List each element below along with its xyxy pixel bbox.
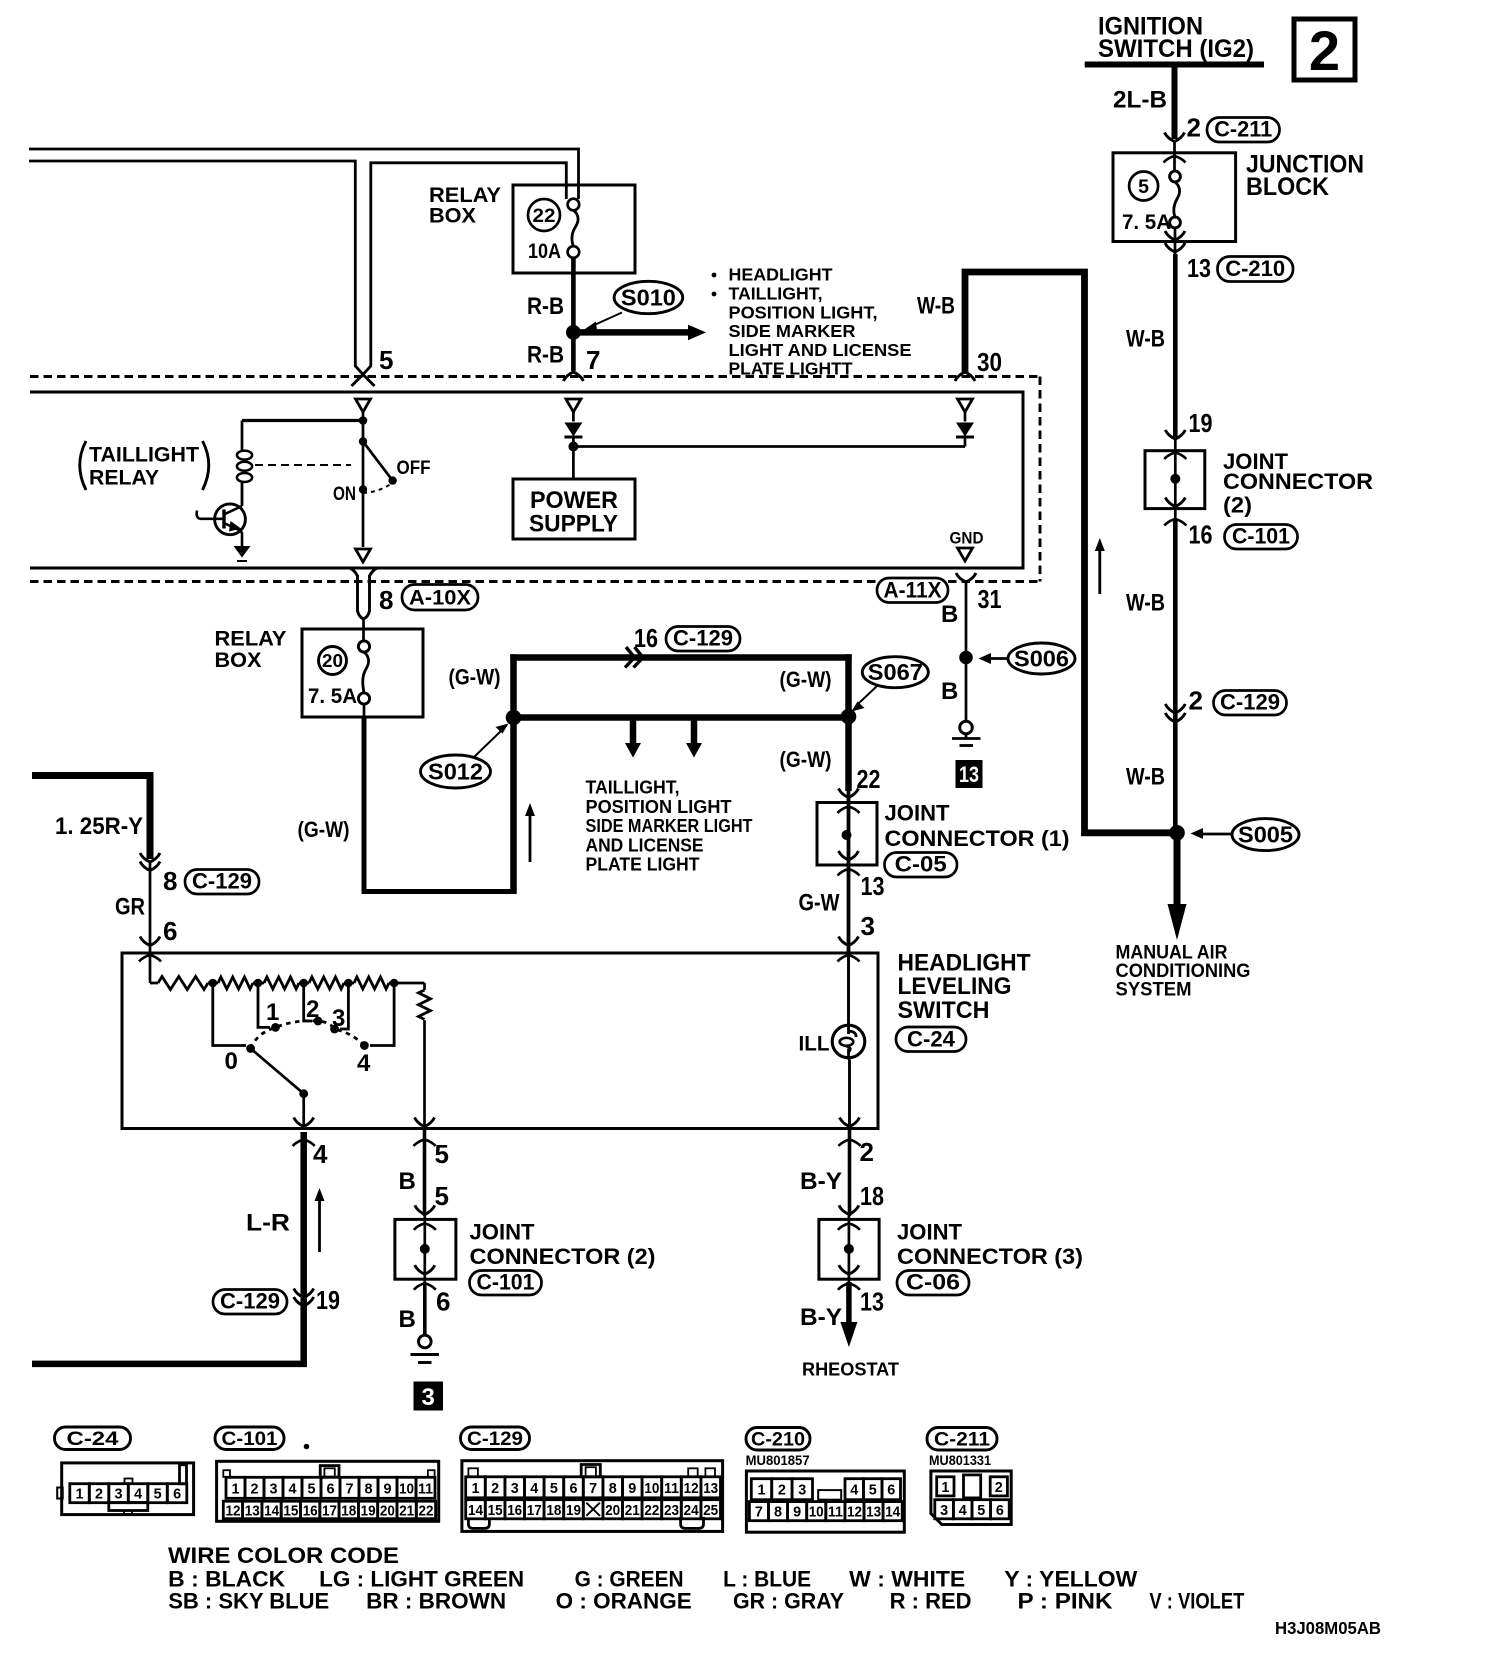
svg-text:21: 21 [625,1502,640,1519]
svg-text:C-24: C-24 [907,1027,956,1052]
svg-text:6: 6 [570,1480,578,1497]
svg-text:6: 6 [996,1502,1004,1519]
svg-text:3: 3 [861,911,875,941]
svg-text:5: 5 [550,1480,558,1497]
splice S005 dot [1169,825,1185,841]
up arrow L-R [318,1198,321,1252]
splice label S006 [1008,643,1075,674]
svg-text:R : RED: R : RED [890,1589,972,1614]
control unit solid box [30,392,1023,568]
svg-text:23: 23 [664,1502,679,1519]
svg-text:(G-W): (G-W) [298,817,350,842]
svg-text:1: 1 [232,1480,240,1497]
svg-text:22: 22 [533,205,556,227]
svg-text:10: 10 [809,1504,824,1521]
svg-text:SWITCH (IG2): SWITCH (IG2) [1098,35,1254,63]
wire W-B joint connector 2 down to S005 [1173,520,1178,830]
svg-text:7: 7 [589,1480,597,1497]
svg-text:11: 11 [828,1504,843,1521]
svg-text:4: 4 [357,1050,371,1077]
svg-text:H3J08M05AB: H3J08M05AB [1275,1618,1381,1638]
svg-text:C-101: C-101 [477,1270,535,1295]
svg-text:C-101: C-101 [1232,524,1290,549]
svg-text:10: 10 [644,1480,659,1497]
svg-text:BR : BROWN: BR : BROWN [366,1589,506,1614]
svg-text:B: B [941,601,958,628]
wire B to joint connector 2 [423,1130,427,1216]
thick branch arrow right from S010 [578,329,688,336]
svg-text:6: 6 [327,1480,335,1497]
arrow to manual air conditioning [1174,836,1181,906]
wire W-B terminal 30 thick feed [965,272,1173,833]
taillight feed arrow 1 [630,718,637,745]
svg-text:1: 1 [76,1486,84,1503]
svg-text:TAILLIGHT,: TAILLIGHT, [586,778,680,798]
splice label S010 [614,281,683,313]
svg-text:5: 5 [154,1486,162,1503]
wire G-W fuse 20 down [363,704,366,716]
svg-text:C-211: C-211 [934,1429,990,1451]
svg-text:(G-W): (G-W) [449,665,501,690]
svg-text:POSITION LIGHT: POSITION LIGHT [586,797,732,817]
svg-text:5: 5 [1138,176,1149,198]
contact stub 3 [340,983,348,1029]
svg-text:C-06: C-06 [906,1270,960,1295]
svg-text:C-211: C-211 [1214,117,1272,142]
svg-text:8: 8 [609,1480,617,1497]
connector pinout C-210 label [746,1428,810,1451]
dashed throw arc [363,484,392,494]
svg-text:R-B: R-B [527,342,564,369]
svg-text:W-B: W-B [917,293,955,320]
svg-text:8: 8 [774,1504,782,1521]
svg-text:RELAY: RELAY [89,467,159,490]
connector C-129 crossing left [140,853,160,862]
joint connector 2 right box [1145,451,1205,509]
svg-text:13: 13 [860,1287,884,1317]
svg-text:11: 11 [418,1480,433,1497]
wire D1 to power supply [572,437,575,479]
svg-text:2L-B: 2L-B [1113,87,1167,114]
wire W-B junction block to joint connector 2 [1173,254,1178,437]
svg-text:B: B [941,678,958,705]
page reference box 2 [1294,19,1355,80]
svg-text:12: 12 [847,1504,862,1521]
ground number 13 black box [956,760,983,788]
joint connector 3 crossing top [838,1205,860,1230]
svg-text:22: 22 [644,1502,659,1519]
contact stub 4 [370,983,394,1046]
connector pinout C-24 label [55,1427,131,1450]
wire B-Y to joint connector 3 [848,1130,852,1216]
splice S067 dot [841,709,857,725]
taillight relay coil [241,421,244,451]
svg-text:C-24: C-24 [67,1428,119,1450]
up arrow beside riser [529,812,532,862]
wire 16 C-129 run [510,654,851,661]
svg-text:17: 17 [527,1502,542,1519]
svg-text:1: 1 [472,1480,480,1497]
resistor R6 vertical [423,983,426,990]
svg-text:3: 3 [270,1480,278,1497]
svg-text:5: 5 [379,345,393,375]
svg-text:B-Y: B-Y [800,1304,842,1331]
svg-text:17: 17 [322,1503,337,1520]
svg-text:G-W: G-W [799,890,840,917]
svg-text:GR: GR [115,894,145,921]
wire G-W bottom run [362,889,514,894]
connector A-10X inline pair [350,568,358,576]
wire terminal 5 up to fuse 22 [363,163,566,375]
connector pinout C-101 body [217,1461,439,1521]
dashed coil actuation line [255,464,351,466]
exit crossing B wire [415,1118,435,1127]
fuse 5 circle number [1129,172,1158,201]
svg-text:(G-W): (G-W) [780,747,832,772]
svg-text:5: 5 [869,1482,877,1499]
headlight bullet list [712,273,717,278]
splice S006 dot [959,651,973,665]
svg-text:14: 14 [885,1504,901,1521]
headlight leveling switch box [122,953,878,1129]
fuse 22 circle number [528,199,560,231]
svg-text:2: 2 [251,1480,259,1497]
connector label C-129 [1214,691,1287,716]
terminal 5 female [356,399,371,412]
terminal 31 chevron [956,573,976,582]
transistor Q1 [215,504,246,535]
svg-text:2: 2 [995,1479,1003,1496]
terminal 7 female [566,399,581,412]
svg-text:R-B: R-B [527,293,564,320]
taillight relay label [80,441,86,490]
svg-text:(G-W): (G-W) [780,667,832,692]
svg-text:RHEOSTAT: RHEOSTAT [802,1359,900,1380]
svg-text:8: 8 [379,585,393,615]
svg-text:16: 16 [634,623,658,653]
up arrow beside W-B [1098,548,1101,594]
svg-text:2: 2 [778,1482,786,1499]
svg-text:JOINT: JOINT [897,1220,963,1245]
taillight feed arrow 2 [691,718,698,745]
diode bus junction dot [568,442,578,452]
switch arm to OFF [363,442,393,481]
svg-text:2: 2 [306,996,319,1023]
joint connector 1 crossing bottom [838,851,860,876]
svg-text:SIDE MARKER LIGHT: SIDE MARKER LIGHT [586,816,753,836]
svg-text:5: 5 [435,1181,449,1211]
svg-text:4: 4 [959,1502,968,1519]
svg-text:7. 5A: 7. 5A [1122,211,1171,234]
svg-text:B: B [399,1168,416,1195]
svg-text:22: 22 [419,1503,434,1520]
svg-text:4: 4 [289,1480,298,1497]
svg-text:18: 18 [341,1503,356,1520]
resistor R3 [264,977,299,989]
svg-text:SWITCH: SWITCH [898,997,990,1024]
wire feed H2 top-left to terminal 5 [29,161,363,375]
svg-text:15: 15 [283,1503,298,1520]
svg-text:19: 19 [566,1502,581,1519]
svg-text:30: 30 [977,347,1002,377]
wire branch line from S012 to S067 [514,714,849,721]
svg-text:S005: S005 [1238,822,1293,848]
svg-text:BLOCK: BLOCK [1246,173,1329,201]
contact stub 2 [304,983,313,1021]
connector label C-129 left [185,870,259,895]
svg-text:25: 25 [703,1502,718,1519]
wiper arm [251,1049,304,1094]
svg-text:4: 4 [134,1486,143,1503]
connector pinout C-129 label [461,1427,530,1450]
arrow to rheostat [846,1282,852,1324]
splice S012 dot [506,710,522,726]
svg-text:8: 8 [365,1480,373,1497]
svg-text:(2): (2) [1223,493,1252,518]
splice junction S010 dot [566,325,581,340]
svg-text:C-210: C-210 [1225,256,1285,281]
dashed selector arc [251,1021,365,1049]
svg-text:4: 4 [850,1482,859,1499]
svg-text:S010: S010 [621,285,676,311]
svg-text:19: 19 [316,1285,340,1315]
connector pinout C-211 body [931,1471,1011,1525]
ground number 3 black box [414,1382,444,1411]
svg-text:20: 20 [605,1502,620,1519]
svg-text:13: 13 [959,762,979,787]
terminal 30 chevron [955,372,975,381]
crossing into leveling switch [839,937,859,946]
junction block exit chevrons [1174,228,1177,254]
svg-text:C-210: C-210 [751,1429,805,1451]
relay box 22 outline [513,185,635,273]
svg-text:3: 3 [940,1502,948,1519]
wire 1.25R-Y feed [32,776,150,860]
svg-text:CONNECTOR: CONNECTOR [1223,469,1373,494]
svg-text:PLATE LIGHT: PLATE LIGHT [586,855,700,875]
wire G-W S067 down to joint connector 1 [845,654,852,791]
svg-text:3: 3 [798,1482,806,1499]
joint connector 1 crossing top [838,789,860,814]
svg-text:1. 25R-Y: 1. 25R-Y [55,813,143,840]
wire L-R thick [32,1132,304,1364]
fuse 5 element [1170,171,1181,182]
svg-text:2: 2 [1187,113,1201,143]
wire B to ground [423,1282,427,1335]
svg-text:RELAY: RELAY [215,628,287,651]
svg-text:LIGHT AND LICENSE: LIGHT AND LICENSE [729,340,912,360]
svg-text:2: 2 [1189,686,1203,716]
svg-text:CONNECTOR (2): CONNECTOR (2) [470,1244,656,1269]
junction node at relay branch [359,416,368,425]
relay box 20 outline [302,629,423,717]
svg-text:ON: ON [333,483,356,505]
connector pinout C-129 body [462,1461,723,1532]
svg-text:24: 24 [684,1502,700,1519]
resistor R4 [309,977,344,989]
svg-text:7: 7 [346,1480,354,1497]
crossing into switch box [140,937,160,946]
svg-text:POSITION LIGHT,: POSITION LIGHT, [729,303,878,323]
wire G-W riser to S012 [510,654,517,894]
exit crossing B-Y wire [840,1118,860,1127]
connector pinout C-210 body [746,1471,904,1532]
svg-text:C-129: C-129 [220,1289,280,1314]
svg-text:S067: S067 [868,659,923,685]
svg-text:15: 15 [488,1502,503,1519]
switch pivot node [359,437,367,445]
connector C-211 crossing [1165,133,1185,142]
terminal 8 female [356,549,371,562]
joint connector 2 right crossing top [1165,430,1185,439]
svg-text:C-101: C-101 [222,1428,278,1450]
svg-text:W-B: W-B [1126,590,1165,617]
svg-text:12: 12 [684,1480,699,1497]
joint connector 2 crossing top [414,1205,436,1230]
svg-text:TAILLIGHT: TAILLIGHT [89,444,199,467]
fuse 22 element [568,199,580,211]
ground G13 [960,721,973,734]
resistor R1 [158,977,208,990]
splice label S067 [862,657,928,688]
svg-text:CONNECTOR (1): CONNECTOR (1) [885,826,1070,851]
svg-text:O : ORANGE: O : ORANGE [556,1589,692,1614]
svg-text:1: 1 [941,1479,949,1496]
svg-text:B: B [399,1306,416,1333]
connector label C-211 [1207,118,1280,143]
svg-text:3: 3 [332,1005,345,1032]
svg-text:7: 7 [586,345,600,375]
wire branch to relay coil [242,419,363,422]
svg-text:ILL: ILL [799,1033,830,1056]
svg-text:S012: S012 [428,759,483,785]
svg-text:3: 3 [422,1384,435,1411]
svg-text:6: 6 [163,916,177,946]
svg-text:WIRE COLOR CODE: WIRE COLOR CODE [168,1543,399,1568]
svg-text:MU801857: MU801857 [746,1453,810,1468]
svg-text:B-Y: B-Y [800,1168,842,1195]
wire diode bus [573,445,965,448]
svg-text:6: 6 [436,1287,450,1317]
svg-text:C-129: C-129 [673,626,733,651]
wire terminal 5 to switch [362,411,365,490]
svg-text:6: 6 [887,1482,895,1499]
svg-text:20: 20 [322,651,343,671]
splice label S005 [1232,819,1299,851]
svg-text:5: 5 [977,1502,985,1519]
diode D2 [964,411,967,422]
junction block box [1113,153,1236,242]
svg-text:31: 31 [978,584,1002,614]
svg-text:A-11X: A-11X [884,578,942,603]
wire feed H1 top-left to fuse 22 [29,149,579,199]
svg-text:AND LICENSE: AND LICENSE [586,835,704,855]
svg-text:BOX: BOX [215,649,262,672]
joint connector 1 box [817,803,877,866]
svg-text:13: 13 [861,871,885,901]
connector label C-210 [1218,257,1294,282]
relay ground arrow [234,546,251,558]
svg-text:2: 2 [95,1486,103,1503]
wire coil to transistor [241,482,244,507]
svg-text:C-129: C-129 [192,869,252,894]
connector label C-129 top [666,627,740,652]
svg-text:19: 19 [1189,408,1213,438]
svg-text:16: 16 [507,1502,522,1519]
svg-text:13: 13 [703,1480,718,1497]
wire R-B from fuse 22 to terminal 7 [571,258,576,371]
svg-text:LEVELING: LEVELING [898,973,1012,1000]
illumination lamp [832,1025,865,1058]
svg-text:C-129: C-129 [467,1428,523,1450]
svg-text:W-B: W-B [1126,764,1165,791]
connector label A-11X [877,578,948,603]
svg-text:GND: GND [950,529,984,548]
svg-text:C-129: C-129 [1220,690,1280,715]
ground G3 [419,1335,432,1348]
svg-text:10: 10 [399,1480,414,1497]
S010 pointer arrow [592,313,622,327]
svg-text:9: 9 [628,1480,636,1497]
svg-text:14: 14 [468,1502,484,1519]
ignition switch bus bar [1085,62,1264,68]
dashed ECU boundary bottom [30,580,1040,583]
svg-text:0: 0 [225,1048,238,1075]
svg-text:11: 11 [664,1480,679,1497]
resistor R2 [218,977,253,989]
svg-text:JOINT: JOINT [885,801,951,826]
svg-text:20: 20 [380,1503,395,1520]
svg-text:4: 4 [313,1139,328,1169]
svg-text:14: 14 [264,1503,280,1520]
svg-text:BOX: BOX [429,205,476,228]
svg-text:SYSTEM: SYSTEM [1116,980,1192,1001]
svg-text:8: 8 [163,866,177,896]
svg-text:4: 4 [530,1480,539,1497]
svg-text:OFF: OFF [397,457,431,479]
svg-text:12: 12 [226,1503,241,1520]
svg-text:HEADLIGHT: HEADLIGHT [729,265,833,285]
svg-text:13: 13 [245,1503,260,1520]
svg-text:2: 2 [491,1480,499,1497]
connector pinout C-211 label [927,1428,997,1451]
terminal 5 chevron [352,375,364,387]
connector label C-129 bottom [213,1290,287,1315]
svg-text:2: 2 [860,1137,874,1167]
terminal 30 female [958,399,973,412]
svg-text:9: 9 [793,1504,801,1521]
svg-text:CONNECTOR (3): CONNECTOR (3) [897,1244,1083,1269]
svg-text:18: 18 [546,1502,561,1519]
wire ON contact to terminal 8 [362,494,365,548]
svg-text:V : VIOLET: V : VIOLET [1149,1589,1244,1614]
contact stub 0 [213,983,246,1046]
power supply box [513,479,635,539]
svg-text:L-R: L-R [246,1210,290,1237]
svg-text:C-05: C-05 [895,852,947,877]
wire GR to switch [149,861,152,983]
svg-text:3: 3 [511,1480,519,1497]
exit crossing L-R [294,1118,314,1127]
svg-text:S006: S006 [1014,646,1069,672]
wire 2L-B from ignition [1172,67,1178,139]
svg-text:5: 5 [435,1139,449,1169]
svg-text:2: 2 [1309,19,1340,82]
diode D1 [572,411,575,422]
svg-text:1: 1 [758,1482,766,1499]
resistor ladder wire segments [150,982,425,985]
wire B ground drop [965,582,968,721]
